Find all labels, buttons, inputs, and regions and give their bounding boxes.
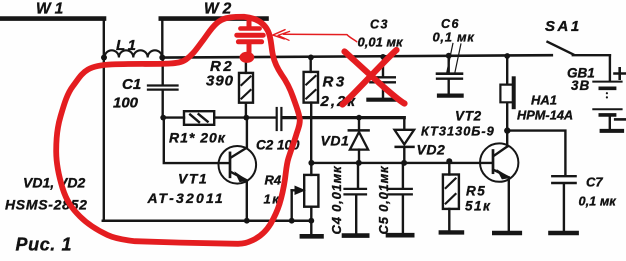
wire common bottom bus <box>103 219 312 222</box>
svg-text:VD1: VD1 <box>321 133 350 149</box>
wire collector node to C7 <box>507 131 565 175</box>
red cross annotation stroke 2 <box>343 50 397 105</box>
junction node VD2 / C5 <box>401 160 407 166</box>
minus terminal mark <box>615 118 625 121</box>
svg-text:0,1 мк: 0,1 мк <box>433 30 476 45</box>
capacitor C3 <box>382 57 384 76</box>
wire SA1 to battery <box>573 55 610 80</box>
junction node R5 / VT2 base <box>446 158 452 164</box>
capacitor C5 <box>402 163 404 188</box>
junction node L1 left <box>101 55 107 61</box>
svg-text:C5 0,01мк: C5 0,01мк <box>376 165 391 235</box>
wiper R4 <box>292 189 297 191</box>
switch SA1 blade <box>548 42 574 55</box>
wire W2 antenna line <box>161 16 267 21</box>
capacitor C6 <box>448 56 450 73</box>
ground C6 <box>439 93 462 97</box>
red capacitor annotation stem bottom <box>247 44 252 52</box>
capacitor C7 <box>552 175 575 177</box>
capacitor C2 <box>246 116 275 118</box>
junction node R4 top <box>308 160 314 166</box>
junction node L1 right / W2 / C1 <box>159 55 165 61</box>
resistor R2 <box>245 58 247 73</box>
junction node C6 top bus <box>446 53 452 59</box>
svg-text:R4: R4 <box>265 173 282 188</box>
svg-text:VT1: VT1 <box>178 171 208 187</box>
leader ticks C6 label <box>447 44 453 73</box>
svg-text:VT2: VT2 <box>455 109 482 124</box>
capacitor C4 <box>357 163 359 188</box>
svg-text:C7: C7 <box>586 175 603 190</box>
wire node B line to VT2 base <box>311 162 492 164</box>
junction node VT1 emitter bus <box>244 218 250 224</box>
svg-text:НА1: НА1 <box>531 93 557 108</box>
junction node C1 / R1 <box>160 115 166 121</box>
red arrow annotation line <box>284 34 357 42</box>
transistor VT2 <box>480 143 518 181</box>
svg-text:SA1: SA1 <box>545 18 582 35</box>
inductor L1 <box>105 50 163 57</box>
wire W1 antenna line <box>0 16 104 21</box>
wire top supply bus <box>162 55 552 57</box>
junction node VD1 / C4 <box>356 160 362 166</box>
red annotations <box>56 17 404 244</box>
junction node C3 top bus <box>380 54 385 59</box>
svg-text:C4 0,01мк: C4 0,01мк <box>329 165 344 235</box>
junction node R4 wiper bus <box>289 218 295 224</box>
ground C5 <box>388 233 412 238</box>
red cross annotation stroke 1 <box>345 52 405 104</box>
transistor VT1 <box>219 146 257 184</box>
svg-text:C3: C3 <box>370 18 389 32</box>
svg-text:VD2: VD2 <box>417 142 446 158</box>
junction node HA1 top bus <box>504 53 510 59</box>
ground C7 <box>551 231 577 236</box>
junction node VD1 top <box>356 115 362 121</box>
svg-text:W1: W1 <box>36 1 67 18</box>
wire detector node line <box>283 116 405 119</box>
red capacitor annotation stem top <box>247 19 252 28</box>
red capacitor annotation blob <box>240 52 255 63</box>
red capacitor annotation plate 2 <box>237 33 263 38</box>
svg-text:R3: R3 <box>323 74 347 91</box>
resistor R5 <box>448 163 450 175</box>
battery GB1 <box>593 81 621 83</box>
capacitor C1 <box>161 58 163 85</box>
svg-text:R1* 20к: R1* 20к <box>169 130 226 146</box>
plus terminal mark <box>615 68 625 78</box>
junction node R3 top bus <box>308 55 314 61</box>
red loop annotation <box>56 17 300 244</box>
svg-text:КТ3130Б-9: КТ3130Б-9 <box>421 124 495 139</box>
svg-text:Рис. 1: Рис. 1 <box>16 235 73 255</box>
svg-text:НРМ-14А: НРМ-14А <box>517 108 573 123</box>
svg-text:VD1, VD2: VD1, VD2 <box>23 175 85 191</box>
wire HA1 to VT2 collector <box>506 104 508 147</box>
ground VT2 emitter <box>494 231 520 236</box>
svg-text:100: 100 <box>113 95 139 112</box>
svg-text:R5: R5 <box>466 184 486 199</box>
svg-text:L1: L1 <box>116 37 139 54</box>
buzzer HA1 <box>506 56 508 84</box>
ground C3 <box>368 98 398 102</box>
red capacitor annotation plate 3 <box>238 39 261 44</box>
svg-text:390: 390 <box>206 73 234 90</box>
svg-text:C1: C1 <box>122 76 141 93</box>
potentiometer R4 <box>310 163 312 175</box>
red capacitor annotation plate 1 <box>240 26 259 31</box>
svg-text:0,1 мк: 0,1 мк <box>579 194 617 209</box>
wire R3 bottom lead crossing to node B <box>310 103 312 163</box>
svg-text:АТ-32011: АТ-32011 <box>147 190 225 206</box>
svg-text:3В: 3В <box>571 78 590 93</box>
resistor R1 <box>184 111 214 125</box>
junction node VT2 collector / C7 <box>504 127 510 133</box>
diode VD2 <box>403 118 405 130</box>
ground R5 <box>441 230 462 234</box>
svg-text:51к: 51к <box>465 199 491 214</box>
junction node R1 / C2 / R2 / VT1 collector <box>243 115 249 121</box>
resistor R1 leads <box>163 116 184 118</box>
red arrow annotation head <box>273 30 285 39</box>
junction node R4 bottom bus <box>308 218 314 224</box>
ground R4 <box>302 234 322 239</box>
ground C4 <box>344 233 367 238</box>
wire W1 down-lead to common <box>103 18 105 221</box>
diode VD1 <box>358 118 360 130</box>
wire W2 down-lead <box>161 19 163 57</box>
resistor R3 <box>310 58 312 72</box>
